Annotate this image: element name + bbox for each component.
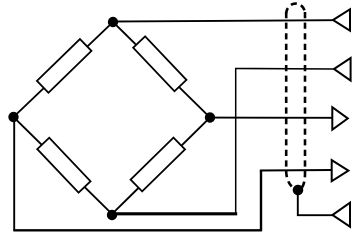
wire to terminal 2 bbox=[235, 68, 334, 71]
cable shield (dashed) bbox=[286, 4, 305, 189]
wire to terminal 4 bbox=[260, 169, 332, 172]
resistor R3 (bottom-left arm) bbox=[37, 138, 90, 193]
bridge arm wire bottom-right bbox=[112, 118, 210, 215]
bridge arm wire bottom-left bbox=[14, 117, 113, 214]
terminal 5 (arrow left) bbox=[333, 203, 351, 227]
wire bottom node to riser (thick) bbox=[112, 212, 237, 215]
wire riser x=261 up (thick) bbox=[260, 171, 262, 232]
node left (junction dot) bbox=[8, 112, 18, 122]
node top (junction dot) bbox=[108, 17, 118, 27]
terminal 2 (arrow left) bbox=[334, 58, 351, 81]
resistor R4 (bottom-right arm) bbox=[131, 138, 185, 192]
wire shield dot to terminal 5 bbox=[298, 190, 333, 215]
bridge arm wire top-right bbox=[113, 22, 210, 118]
terminal 3 (arrow right) bbox=[332, 107, 348, 130]
shield junction dot bbox=[293, 185, 304, 196]
wire bottom rail bbox=[13, 229, 261, 231]
wire left node down bbox=[13, 117, 15, 231]
node right (junction dot) bbox=[205, 112, 215, 122]
wire top node to terminal 1 bbox=[113, 20, 333, 21]
bridge arm wire top-left bbox=[14, 22, 114, 117]
wire riser x=235.7 up bbox=[235, 69, 237, 215]
terminal 4 (arrow right) bbox=[332, 160, 349, 181]
resistor R1 (top-left arm) bbox=[37, 39, 92, 93]
terminal 1 (arrow left) bbox=[333, 9, 350, 30]
resistor R2 (top-right arm) bbox=[133, 36, 186, 91]
wire right node to terminal 3 bbox=[210, 117, 332, 119]
node bottom (junction dot) bbox=[107, 210, 117, 220]
